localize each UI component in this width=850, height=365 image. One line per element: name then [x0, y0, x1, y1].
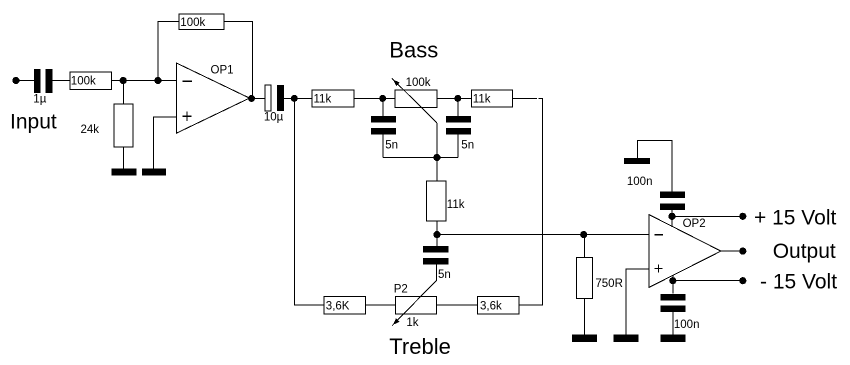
wire C6 to V+ rail node	[671, 210, 673, 216]
label Treble	[389, 334, 451, 359]
wire V- rail to -15V terminal	[673, 280, 743, 282]
ground under OP2 plus input	[614, 335, 639, 342]
node A junction	[120, 77, 127, 84]
svg-text:100k: 100k	[180, 17, 205, 29]
op-amp OP2	[649, 215, 721, 288]
svg-text:P2: P2	[394, 283, 408, 295]
ground above C6	[624, 158, 650, 164]
wire OP1 output to C2	[252, 97, 266, 99]
resistor R7 3,6K	[324, 296, 366, 314]
node Input terminal	[12, 77, 19, 84]
svg-text:100k: 100k	[71, 76, 96, 88]
resistor R3 100k feedback	[179, 14, 224, 30]
label +15 Volt	[754, 207, 836, 230]
ground under R2	[112, 168, 137, 175]
wire P1 wiper down to node F	[436, 123, 438, 158]
resistor R6 11k vertical	[427, 181, 465, 221]
svg-text:1µ: 1µ	[33, 94, 46, 106]
svg-text:+ 15 Volt: + 15 Volt	[754, 207, 836, 230]
svg-text:11k: 11k	[314, 94, 332, 106]
potentiometer P1 bass 100k	[392, 77, 437, 123]
wire R9 to ground	[583, 298, 585, 334]
svg-text:OP2: OP2	[683, 218, 706, 230]
capacitor C2 10µ polarized	[264, 85, 284, 124]
ground under OP1 plus input	[142, 168, 166, 175]
node H junction on OP2 input rail	[580, 231, 587, 238]
wire C7 to ground	[672, 312, 674, 335]
capacitor C6 100n top	[627, 176, 685, 210]
wire R4 to node D	[354, 97, 395, 99]
node B junction	[154, 77, 161, 84]
capacitor C1 1µ	[33, 69, 52, 106]
svg-text:10µ: 10µ	[264, 112, 284, 124]
resistor R2 24k	[81, 104, 133, 147]
node Output terminal	[739, 248, 746, 255]
node OP1 output	[248, 95, 255, 102]
node E junction	[454, 95, 461, 102]
svg-text:5n: 5n	[438, 269, 451, 281]
potentiometer P2 treble 1k	[392, 280, 437, 329]
wire bottom rail of bass caps	[383, 157, 458, 159]
svg-text:100k: 100k	[406, 77, 431, 89]
svg-text:Treble: Treble	[389, 334, 451, 359]
node V- pin junction	[669, 277, 676, 284]
svg-text:3,6k: 3,6k	[480, 300, 502, 312]
wire OP2 V- pin	[672, 275, 674, 280]
op-amp OP1	[177, 63, 250, 133]
node F junction	[433, 154, 440, 161]
wire OP1 non-inverting input to ground	[153, 117, 176, 168]
capacitor C4 5n right	[446, 116, 474, 152]
wire node E down to C4	[457, 98, 459, 115]
wire C6 up and over to ground	[637, 141, 672, 192]
resistor R1 100k	[70, 72, 112, 89]
svg-text:1k: 1k	[406, 317, 418, 329]
wire C4 to bottom rail	[457, 135, 459, 158]
wire OP2 non-inverting input to ground	[626, 269, 649, 335]
wire V+ rail to +15V terminal	[672, 215, 743, 217]
svg-text:OP1: OP1	[211, 65, 234, 77]
svg-text:750R: 750R	[595, 278, 623, 290]
ground under R9	[572, 335, 597, 342]
wire C1 to R1	[53, 80, 70, 82]
wire R1 to OP1 inverting input	[112, 80, 177, 82]
wire C3 to bottom rail	[382, 135, 384, 158]
wire node D down to C3	[382, 98, 384, 115]
wire R6 to node G	[436, 221, 438, 235]
label Input	[10, 110, 57, 133]
svg-text:24k: 24k	[81, 124, 100, 136]
wire R7 to P2	[366, 304, 396, 306]
svg-text:Input: Input	[10, 110, 57, 133]
node C junction	[291, 95, 298, 102]
svg-text:- 15 Volt: - 15 Volt	[760, 271, 837, 294]
label Bass	[389, 38, 438, 63]
node +15V terminal	[739, 213, 746, 220]
wire node F to R6	[436, 158, 438, 182]
wire node C down to treble row	[295, 98, 325, 305]
node V+ pin junction	[668, 213, 675, 220]
svg-text:11k: 11k	[447, 199, 465, 211]
svg-text:100n: 100n	[627, 176, 653, 188]
wire C2 to node C	[284, 97, 312, 99]
label -15 Volt	[760, 271, 837, 294]
wire C5 to P2 wiper	[436, 265, 438, 281]
wire P2 to R8	[436, 304, 477, 306]
wire V- pin down to C7	[672, 281, 674, 294]
resistor R8 3,6k	[478, 296, 519, 314]
resistor R4 11k	[312, 90, 354, 107]
svg-text:Bass: Bass	[389, 38, 438, 63]
wire OP2 V+ pin	[671, 216, 673, 227]
wire P1 to node E	[437, 97, 472, 99]
node G junction	[433, 231, 440, 238]
wire node H down to R9	[583, 235, 585, 258]
wire node G to OP2 inverting input	[437, 234, 649, 236]
svg-text:11k: 11k	[473, 94, 491, 106]
wire R2 to ground	[123, 147, 125, 168]
wire node B up to R3	[158, 22, 179, 81]
node D junction	[379, 95, 386, 102]
capacitor C7 100n bottom	[661, 294, 700, 331]
svg-text:100n: 100n	[674, 319, 700, 331]
wire OP2 output	[721, 250, 743, 252]
svg-text:5n: 5n	[385, 139, 398, 151]
wire corner to right rail down to treble row	[519, 98, 543, 305]
node -15V terminal	[739, 277, 746, 284]
svg-text:3,6K: 3,6K	[326, 300, 350, 312]
svg-text:5n: 5n	[461, 139, 474, 151]
ground under C7	[661, 335, 686, 342]
wire input to C1	[16, 80, 34, 82]
wire R5 right and down to treble row	[513, 97, 537, 99]
svg-text:Output: Output	[773, 240, 836, 263]
resistor R5 11k right	[472, 90, 513, 107]
resistor R9 750R	[576, 258, 623, 299]
wire node G down to C5	[436, 235, 438, 246]
label Output	[773, 240, 836, 263]
capacitor C3 5n left	[371, 116, 398, 152]
wire R3 to OP1 output	[224, 22, 253, 98]
capacitor C5 5n middle	[423, 246, 451, 281]
wire node A to R2	[123, 81, 125, 105]
